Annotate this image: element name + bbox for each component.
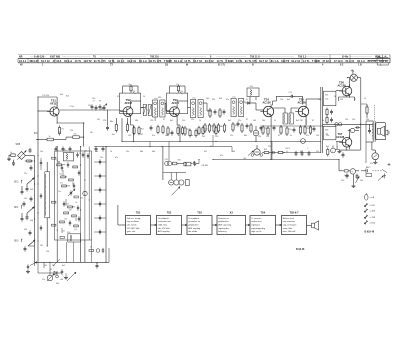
vert 169 (168, 142, 170, 162)
svg-text:61.2 31: 61.2 31 (291, 59, 300, 63)
svg-text:SKB: SKB (16, 144, 21, 146)
svg-text:81 1-A: 81 1-A (64, 59, 72, 63)
svg-text:3k3: 3k3 (60, 94, 63, 96)
vert 150b (149, 142, 151, 147)
svg-text:SK RU: SK RU (201, 165, 208, 167)
battery BT (345, 169, 360, 177)
cap C29 (356, 174, 359, 179)
feedback C25 (276, 92, 302, 98)
svg-text:220: 220 (191, 119, 194, 121)
svg-text:47: 47 (178, 135, 180, 137)
svg-text:10k: 10k (262, 120, 265, 122)
driver transformer (283, 108, 293, 124)
cap bus3 (21, 213, 24, 222)
osc top box (63, 150, 74, 161)
plug X4 (361, 166, 372, 177)
svg-text:st.m.: st.m. (192, 96, 197, 99)
svg-text:AVR spanning: AVR spanning (218, 224, 231, 227)
wire TS2 base (120, 110, 124, 112)
svg-text:15k: 15k (59, 174, 62, 176)
svg-text:330: 330 (56, 283, 59, 285)
svg-text:2n2: 2n2 (66, 204, 69, 206)
underrow wire TS45 (263, 125, 323, 127)
bottom extra glyphs (61, 269, 68, 279)
svg-text:81 1-A: 81 1-A (174, 59, 182, 63)
osc top wires (57, 147, 89, 152)
output cluster low (331, 146, 345, 158)
left col extra1 (25, 160, 33, 171)
svg-text:8n2: 8n2 (170, 120, 173, 122)
bottom rail (35, 248, 110, 262)
pot loop (163, 173, 186, 180)
block X3 (217, 211, 246, 234)
supply drop (339, 160, 350, 173)
svg-text:SK3: SK3 (14, 182, 19, 184)
rung stubs (94, 159, 106, 234)
osc top caps (76, 151, 89, 159)
svg-text:R24: R24 (325, 95, 328, 97)
svg-text:Zelf osc. meng-: Zelf osc. meng- (127, 218, 141, 220)
svg-text:47n: 47n (220, 155, 223, 157)
svg-text:det. diode: det. diode (188, 230, 198, 233)
svg-text:15k: 15k (79, 153, 82, 155)
res row tone (262, 149, 285, 154)
osc bottom box (67, 232, 81, 242)
cluster A (90, 101, 120, 111)
svg-text:150: 150 (92, 98, 95, 100)
block TS1 (126, 211, 151, 234)
output transformer (366, 121, 375, 142)
wire TS7 base (336, 142, 342, 150)
svg-text:22n: 22n (42, 279, 45, 281)
svg-text:tegenkoppeling: tegenkoppeling (251, 227, 265, 230)
svg-text:8n2: 8n2 (287, 99, 290, 101)
cap C19 (260, 125, 263, 130)
svg-text:4k7: 4k7 (112, 134, 115, 136)
svg-text:B 92A 46: B 92A 46 (365, 231, 375, 234)
svg-text:8n2: 8n2 (228, 120, 231, 122)
table separators (18, 55, 390, 65)
label TS2 (125, 98, 133, 105)
wire left bus A (34, 156, 36, 263)
svg-text:B: B (252, 64, 254, 67)
svg-text:47: 47 (210, 146, 212, 148)
svg-text:1k: 1k (49, 136, 51, 138)
bottom wires (35, 262, 50, 273)
label Lx (308, 148, 311, 156)
svg-text:1M: 1M (300, 120, 303, 122)
svg-text:22n: 22n (126, 151, 129, 153)
rail left cluster (26, 262, 37, 274)
svg-text:22n: 22n (24, 173, 27, 175)
wire IF2 out (203, 103, 212, 111)
svg-text:R2: R2 (62, 129, 64, 131)
transistor TS3 (167, 105, 180, 119)
svg-text:1 B: 1 B (358, 64, 362, 67)
jack bu (47, 262, 58, 281)
svg-text:47 12.3: 47 12.3 (334, 59, 343, 63)
svg-text:150: 150 (341, 180, 344, 182)
svg-text:R30: R30 (178, 160, 181, 162)
svg-text:3k3: 3k3 (253, 120, 256, 122)
svg-text:100: 100 (165, 135, 168, 137)
svg-text:1M: 1M (52, 265, 55, 267)
label SKB (16, 144, 21, 146)
svg-text:81 1-A: 81 1-A (139, 59, 147, 63)
table row 3 (20, 64, 382, 67)
block TS3 (187, 211, 212, 234)
wire TS3 emitter (177, 119, 180, 142)
svg-text:12k: 12k (370, 163, 373, 165)
svg-text:R4: R4 (99, 101, 101, 103)
arrow plug (378, 176, 383, 181)
svg-text:2n2: 2n2 (74, 229, 77, 231)
underbox res (115, 118, 128, 132)
top loop TS3 (170, 84, 186, 93)
svg-text:SK0: SK0 (14, 241, 19, 243)
svg-text:BAT2: BAT2 (366, 166, 371, 169)
table row 1 (19, 56, 382, 59)
label SK1 (14, 206, 22, 209)
svg-text:22n: 22n (316, 151, 319, 153)
svg-text:220: 220 (215, 136, 218, 138)
transistor TS4 (260, 104, 273, 118)
svg-text:8n2: 8n2 (66, 96, 69, 98)
svg-text:61.7 12: 61.7 12 (259, 59, 268, 63)
wire TS6 collector (349, 78, 351, 87)
elco out (348, 126, 361, 133)
svg-text:B 46e: B 46e (342, 56, 349, 59)
svg-text:5k6: 5k6 (232, 151, 235, 153)
wire TS7 collector (349, 129, 351, 138)
vert 84 dots (83, 122, 84, 137)
svg-text:T 6995: T 6995 (312, 59, 321, 63)
title table rules (18, 55, 390, 63)
left extra dots (34, 160, 48, 246)
svg-text:14 TL: 14 TL (303, 59, 310, 63)
block TS5-6-7 (282, 211, 307, 234)
wire feedback drop (302, 96, 304, 104)
svg-text:3k3: 3k3 (141, 128, 144, 130)
vert 360 (360, 78, 362, 150)
svg-text:TS5-6-7: TS5-6-7 (289, 211, 299, 214)
S11 secondary pair (321, 87, 323, 153)
left col extra2 (23, 196, 33, 206)
svg-text:1k: 1k (143, 96, 145, 98)
extra det verts (189, 129, 197, 138)
svg-text:517-1622 kHz: 517-1622 kHz (127, 228, 140, 230)
value labels bottom (42, 265, 65, 285)
res R26 (361, 104, 368, 118)
svg-text:AF117: AF117 (172, 101, 180, 105)
svg-text:2: 2 (337, 147, 338, 149)
svg-text:5+86 126: 5+86 126 (34, 56, 45, 59)
cap C27 (368, 124, 371, 133)
switch SK1 wiper (26, 207, 35, 220)
diode X2 (246, 99, 253, 104)
block TS2 (157, 211, 182, 234)
svg-text:47: 47 (278, 135, 280, 137)
osc mid res1 (59, 174, 73, 181)
wire TS7 emitter (339, 147, 360, 150)
switch SK3 wiper (26, 178, 35, 192)
svg-text:11: 11 (176, 84, 178, 86)
label NR2 (286, 148, 291, 152)
transistor TS5 (295, 104, 308, 118)
wire S10 leads (250, 97, 256, 102)
lamp LA1 (347, 69, 361, 81)
svg-text:AVR regeling: AVR regeling (158, 230, 170, 233)
left extra res (52, 157, 56, 226)
left extra caps (40, 158, 42, 231)
svg-text:47n: 47n (152, 135, 155, 137)
svg-text:1k: 1k (199, 120, 201, 122)
tone pot (243, 145, 262, 160)
svg-text:61.7 12: 61.7 12 (41, 59, 50, 63)
transistor TS7 (339, 136, 352, 150)
svg-text:midd. freq.: midd. freq. (158, 224, 168, 227)
svg-text:150: 150 (352, 119, 355, 121)
svg-text:47n: 47n (60, 183, 63, 185)
svg-text:5.6k: 5.6k (325, 99, 328, 101)
osc low res1 (66, 204, 79, 211)
svg-text:15k: 15k (46, 95, 49, 97)
svg-text:61.2 31: 61.2 31 (127, 59, 136, 63)
osc extra dots (57, 159, 90, 230)
svg-text:= SL1: = SL1 (370, 205, 377, 207)
svg-text:124 T2: 124 T2 (84, 59, 93, 63)
vert 107 down (106, 110, 109, 131)
vert 122 (121, 118, 123, 141)
rail y141 (122, 141, 321, 143)
svg-text:1: 1 (343, 95, 344, 97)
svg-text:124 T2: 124 T2 (281, 59, 290, 63)
elco rail (335, 123, 342, 126)
svg-text:= LA: = LA (370, 196, 375, 199)
svg-text:S10: S10 (250, 86, 253, 88)
svg-text:47: 47 (246, 119, 248, 121)
svg-text:T68 21-8: T68 21-8 (250, 56, 260, 59)
interface mids (326, 108, 333, 125)
svg-text:150: 150 (318, 99, 321, 101)
top rail 124 (323, 124, 374, 125)
wire skru (198, 160, 200, 164)
interface box bottom (324, 126, 336, 140)
vert 366 (365, 121, 367, 163)
TS5 bottoms (299, 125, 315, 135)
svg-text:5k6: 5k6 (30, 220, 33, 222)
svg-text:SK1: SK1 (14, 207, 19, 209)
svg-text:trap oscillator: trap oscillator (127, 220, 139, 223)
svg-text:L7S1: L7S1 (70, 106, 74, 108)
svg-text:8n2: 8n2 (296, 120, 299, 122)
volume pot small (253, 126, 259, 142)
svg-text:10k: 10k (74, 133, 77, 135)
svg-text:afst. bereik: afst. bereik (127, 224, 138, 227)
osc verticals (57, 151, 89, 240)
svg-text:47n: 47n (226, 99, 229, 101)
label B92A46 (365, 231, 375, 234)
wire y139 stub (60, 137, 66, 139)
svg-text:15k: 15k (360, 180, 363, 182)
IF transformer 1 (153, 97, 166, 117)
svg-text:l.f. voorver-: l.f. voorver- (251, 217, 262, 220)
svg-text:22n: 22n (289, 129, 292, 131)
svg-text:C30: C30 (165, 159, 168, 161)
coil box S10 (247, 86, 259, 97)
svg-text:100: 100 (206, 98, 209, 100)
vert 91 down (84, 240, 86, 262)
svg-text:14 TL: 14 TL (236, 59, 243, 63)
resistor R-ant (9, 152, 15, 157)
TS3 bottoms (167, 126, 190, 136)
svg-text:47: 47 (354, 99, 356, 101)
svg-text:47n: 47n (117, 96, 120, 98)
svg-text:X2: X2 (246, 99, 248, 101)
svg-text:S13: S13 (63, 150, 66, 152)
osc trimmer (68, 189, 75, 196)
svg-text:3k3: 3k3 (219, 98, 222, 100)
svg-text:12k: 12k (258, 136, 261, 138)
svg-text:12k: 12k (266, 136, 269, 138)
svg-text:15k: 15k (40, 151, 43, 153)
svg-text:14 TL: 14 TL (217, 59, 224, 63)
wire TS1 collector (59, 106, 90, 110)
svg-text:B 92 46: B 92 46 (296, 248, 305, 251)
svg-text:768 216: 768 216 (150, 56, 159, 59)
top loop TS2 (123, 84, 139, 93)
left bus dots (34, 132, 39, 140)
svg-text:1k: 1k (364, 98, 366, 100)
svg-text:T 6995: T 6995 (226, 59, 235, 63)
svg-text:15k: 15k (24, 198, 27, 200)
under rail row (133, 126, 217, 135)
svg-text:gelijkrichter: gelijkrichter (188, 224, 199, 227)
vert 106 down (105, 147, 107, 263)
osc top res (57, 162, 78, 168)
svg-text:150: 150 (88, 105, 91, 107)
node dots bus (34, 177, 39, 213)
svg-text:AF117: AF117 (125, 101, 133, 105)
label SK3 (14, 180, 22, 183)
wire TS5 emitter2 (301, 119, 307, 144)
label SK0 (14, 239, 22, 242)
label TS4 (263, 98, 272, 105)
svg-text:belasting: belasting (218, 230, 226, 233)
speaker LS (376, 123, 389, 140)
svg-text:T69 3.2: T69 3.2 (298, 56, 307, 59)
svg-text:6167 698: 6167 698 (50, 56, 61, 59)
osc bottom verts (57, 240, 80, 262)
svg-text:afst. 452 kHz: afst. 452 kHz (158, 227, 170, 230)
svg-text:61.7 12: 61.7 12 (205, 59, 214, 63)
osc extra bits (60, 165, 80, 238)
wire TS5 collector (306, 99, 321, 104)
osc xtra lbl (58, 191, 77, 233)
dashed plug (372, 169, 387, 178)
svg-text:10k: 10k (235, 125, 238, 127)
svg-text:= B12: = B12 (370, 222, 377, 224)
svg-text:S14: S14 (67, 232, 70, 234)
transistor TS2 (120, 105, 133, 119)
wire TS3 out (188, 107, 191, 109)
detector cluster (204, 108, 228, 133)
svg-text:68k: 68k (110, 121, 113, 123)
res R30 (172, 160, 184, 165)
svg-text:15k: 15k (280, 99, 283, 101)
wire ant-bus (26, 155, 35, 157)
block speaker (307, 221, 319, 230)
svg-text:NR: NR (19, 56, 23, 59)
svg-text:47: 47 (312, 120, 314, 122)
transistor TS1 (47, 105, 59, 118)
svg-text:Balans eind-: Balans eind- (283, 218, 295, 220)
svg-text:R28: R28 (325, 130, 328, 132)
osc low res3 (60, 219, 79, 227)
label B9246 (296, 248, 305, 251)
svg-text:AC126: AC126 (298, 100, 307, 104)
ground meter (373, 161, 377, 164)
svg-text:14 TL: 14 TL (75, 59, 82, 63)
legend sym 4 (364, 220, 376, 224)
resistor R1h (36, 136, 60, 141)
wire det out (244, 102, 263, 110)
svg-text:3k3: 3k3 (30, 189, 33, 191)
ground TS7 (335, 147, 341, 154)
left col extra3 (29, 231, 32, 236)
svg-text:10: 10 (129, 84, 131, 86)
diode X1 (49, 259, 62, 275)
svg-text:68k: 68k (244, 135, 247, 137)
vert 213 down (212, 135, 214, 147)
svg-text:TS3: TS3 (197, 211, 202, 214)
svg-text:1e middenfr.: 1e middenfr. (158, 217, 170, 220)
svg-text:100: 100 (64, 219, 67, 221)
svg-text:47n: 47n (306, 135, 309, 137)
svg-text:68k: 68k (135, 120, 138, 122)
cap C31 (193, 161, 199, 166)
IF transformer 2 (191, 96, 204, 117)
svg-text:8k2: 8k2 (264, 149, 267, 151)
svg-text:61.7 12: 61.7 12 (193, 59, 202, 63)
wire TS2 out (141, 107, 146, 109)
svg-text:afgn. op t.k.: afgn. op t.k. (251, 230, 262, 233)
svg-text:15k: 15k (44, 265, 47, 267)
svg-text:91 4.1: 91 4.1 (19, 59, 27, 63)
svg-text:220: 220 (103, 120, 106, 122)
svg-text:3k3: 3k3 (326, 146, 329, 148)
svg-text:regeling det.: regeling det. (218, 227, 230, 230)
svg-text:220: 220 (345, 119, 348, 121)
osc elco (80, 191, 87, 199)
wire meter (372, 142, 375, 153)
resistor R2 vert (58, 123, 63, 136)
arrow pot2 (67, 272, 76, 281)
svg-text:AC126: AC126 (263, 100, 272, 104)
svg-text:1B: 1B (165, 64, 168, 67)
legend lamp (365, 193, 375, 200)
svg-text:X1: X1 (50, 269, 52, 271)
svg-text:91 TL 175: 91 TL 175 (94, 59, 106, 63)
above rail items (89, 247, 104, 254)
value labels row (46, 94, 369, 123)
osc coil box (45, 162, 50, 246)
svg-text:1k: 1k (334, 96, 336, 98)
svg-text:AC128: AC128 (336, 135, 345, 139)
svg-text:1k: 1k (10, 152, 12, 154)
vert 150 down (154, 117, 156, 121)
svg-text:1M: 1M (40, 245, 43, 247)
